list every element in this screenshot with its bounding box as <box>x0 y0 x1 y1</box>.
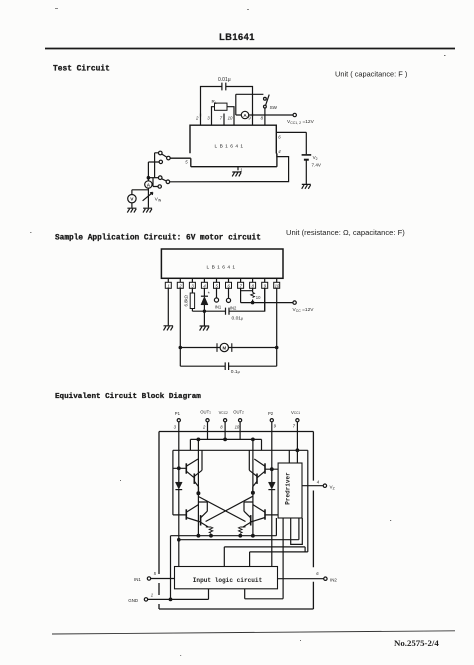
svg-text:7: 7 <box>220 116 223 121</box>
svg-text:3: 3 <box>207 116 210 121</box>
terminal IN2 pin 6 <box>324 577 327 580</box>
svg-text:OUT2: OUT2 <box>233 410 244 415</box>
resistor R5 <box>208 527 213 536</box>
emitter rail / ground rail <box>171 518 277 599</box>
svg-text:P1: P1 <box>175 411 181 416</box>
svg-text:Test Circuit: Test Circuit <box>53 65 110 74</box>
rail OUT top <box>190 439 261 450</box>
capacitor 0.01u top <box>201 87 253 117</box>
pin 10 wire down <box>276 288 278 366</box>
svg-text:No.2575-2/4: No.2575-2/4 <box>394 638 439 648</box>
input IN2 pin 6 <box>228 288 230 298</box>
node junction <box>147 177 149 179</box>
svg-text:4: 4 <box>203 283 206 288</box>
resistor 10 on pin 8 <box>252 288 254 302</box>
svg-text:Predriver: Predriver <box>285 472 292 505</box>
terminal GND pin 1 <box>144 598 147 601</box>
svg-text:7: 7 <box>240 283 243 288</box>
pin ticks top: 2 3 7 10 9 8 <box>201 114 265 126</box>
svg-text:1: 1 <box>167 283 169 288</box>
pin 9 wire <box>264 288 266 311</box>
wire node row with capacitor 0.01u <box>192 288 264 311</box>
footer rule <box>52 631 455 634</box>
battery V2 7.4V <box>305 132 307 184</box>
transistor Q6 <box>200 515 202 525</box>
svg-text:4: 4 <box>317 479 320 484</box>
svg-text:M: M <box>222 345 226 350</box>
svg-text:0.01μ: 0.01μ <box>232 315 244 321</box>
pin 7 wire and jumper to pin 8 <box>241 288 253 302</box>
input logic circuit box U4 <box>175 567 278 589</box>
svg-text:SW: SW <box>270 105 278 110</box>
terminal P1 <box>177 419 180 422</box>
svg-text:6.8kΩ: 6.8kΩ <box>184 294 189 306</box>
svg-text:Unit ( capacitance: F ): Unit ( capacitance: F ) <box>335 70 407 79</box>
svg-text:Sample Application Circuit: 6V: Sample Application Circuit: 6V motor cir… <box>55 235 261 243</box>
base feed column left <box>172 450 174 515</box>
terminal OUT1 <box>206 419 209 422</box>
svg-text:IN1: IN1 <box>215 305 222 310</box>
wire predriver U-link <box>291 518 303 544</box>
VIN variable arrow <box>143 192 153 200</box>
svg-text:OUT1: OUT1 <box>200 410 211 415</box>
terminal VCC1,2 <box>293 113 296 116</box>
rail VCC upper <box>173 449 308 451</box>
svg-text:VCC =12V: VCC =12V <box>293 307 315 313</box>
diode D3 <box>178 468 180 566</box>
pin 4 return loop wire <box>170 154 289 182</box>
ground battery <box>302 184 311 188</box>
transistor Q1 <box>185 463 187 473</box>
wire logic rail A <box>224 547 305 567</box>
svg-text:LB1641: LB1641 <box>219 32 255 42</box>
svg-text:1: 1 <box>151 592 153 597</box>
contact d <box>158 185 161 188</box>
svg-text:9: 9 <box>248 116 251 121</box>
wire predriver top riser <box>288 450 290 463</box>
svg-text:Input logic circuit: Input logic circuit <box>193 577 263 584</box>
ground below V <box>127 208 136 212</box>
svg-text:8: 8 <box>261 116 264 121</box>
svg-text:A: A <box>147 182 151 187</box>
terminal P2 <box>270 419 273 422</box>
wire predriver to logic step <box>245 518 283 599</box>
node OUT1 junction <box>197 492 200 495</box>
svg-text:5: 5 <box>154 571 157 576</box>
svg-text:IN1: IN1 <box>134 577 141 582</box>
svg-text:VCC2: VCC2 <box>219 410 228 415</box>
terminal Vz pin 4 <box>302 485 323 487</box>
contact b <box>159 160 162 163</box>
svg-text:10: 10 <box>235 425 240 430</box>
transistor Q7 <box>264 509 266 519</box>
wire logic rail B <box>250 552 308 567</box>
svg-text:8: 8 <box>252 283 255 288</box>
pin 1 wire to ground <box>167 288 169 325</box>
terminal OUT2 <box>239 419 242 422</box>
svg-text:V: V <box>130 197 134 203</box>
IC U1 LB1641 box <box>190 125 276 153</box>
svg-text:VZ: VZ <box>330 484 335 490</box>
motor M <box>220 343 228 351</box>
svg-text:2: 2 <box>202 425 206 430</box>
terminal VCC1 <box>296 419 299 422</box>
svg-text:2: 2 <box>178 283 182 288</box>
svg-text:Unit (resistance: Ω, capacitan: Unit (resistance: Ω, capacitance: F) <box>286 228 405 237</box>
rail second <box>179 518 299 540</box>
svg-text:6: 6 <box>278 135 281 140</box>
svg-text:LB1641: LB1641 <box>215 144 246 150</box>
switch SW <box>264 97 267 100</box>
node vertical right <box>252 439 254 535</box>
svg-text:3: 3 <box>174 425 177 430</box>
transistor Q5 <box>185 509 187 519</box>
svg-text:7: 7 <box>293 424 296 429</box>
svg-text:V2: V2 <box>313 155 318 161</box>
transistor Q2 <box>193 474 195 484</box>
pin 2 wire down to rails <box>179 288 181 366</box>
resistor R6 <box>239 527 244 536</box>
ammeter A <box>241 111 248 118</box>
diode D1 on pin 4 <box>203 288 205 326</box>
svg-text:*: * <box>208 291 210 297</box>
svg-text:0.01μ: 0.01μ <box>218 77 231 83</box>
pin boxes 1-10 <box>165 282 279 288</box>
svg-text:8: 8 <box>220 425 223 430</box>
svg-text:IN2: IN2 <box>230 305 237 310</box>
cross-coupling wires <box>198 496 253 521</box>
capacitor 0.1u bottom rail <box>180 365 276 367</box>
svg-text:LB1641: LB1641 <box>207 264 238 270</box>
outer boundary box <box>159 432 313 610</box>
terminal VCC2 <box>224 419 227 422</box>
transistor Q3 <box>264 463 266 473</box>
transistor Q8 <box>250 515 252 525</box>
motor M rail <box>180 347 276 349</box>
svg-text:3: 3 <box>191 283 194 288</box>
transistor Q4 <box>256 474 258 484</box>
resistor 6.8k on pin 3 <box>191 288 193 311</box>
header rule <box>45 48 455 50</box>
ground below VIN <box>143 208 152 212</box>
svg-text:2: 2 <box>195 116 199 121</box>
svg-text:GND: GND <box>128 598 138 603</box>
svg-text:VCC1: VCC1 <box>291 410 300 415</box>
predriver box U3 <box>278 463 302 518</box>
svg-text:VCC1, 2 =12V: VCC1, 2 =12V <box>287 119 315 125</box>
svg-text:0.1μ: 0.1μ <box>231 369 240 375</box>
node OUT2 junction <box>252 491 255 494</box>
pin 5 wire and bottom bracket with pin 1 <box>170 153 277 166</box>
VCC terminal <box>241 302 293 304</box>
wire to switch <box>236 94 264 115</box>
svg-text:9: 9 <box>264 283 267 288</box>
IC U2 LB1641 box <box>161 249 283 278</box>
switch S1a top <box>159 151 163 155</box>
svg-text:RL: RL <box>212 99 217 105</box>
svg-text:10: 10 <box>275 283 280 288</box>
svg-text:5: 5 <box>216 283 219 288</box>
svg-text:Equivalent Circuit Block Diagr: Equivalent Circuit Block Diagram <box>55 393 201 401</box>
switch S1b bottom <box>158 176 162 180</box>
node vertical left <box>197 439 199 535</box>
svg-text:IN2: IN2 <box>330 577 337 582</box>
diode D4 <box>271 469 273 566</box>
ammeter A2 left <box>145 181 152 188</box>
svg-text:10: 10 <box>256 295 261 300</box>
svg-text:VIN: VIN <box>155 196 162 202</box>
resistor RL <box>212 107 235 114</box>
svg-text:10: 10 <box>228 116 233 121</box>
svg-text:7.4V: 7.4V <box>312 163 322 168</box>
terminal IN1 pin 5 <box>147 577 150 580</box>
svg-text:9: 9 <box>274 424 277 429</box>
svg-text:P2: P2 <box>268 411 274 416</box>
svg-text:4: 4 <box>278 149 281 154</box>
wire rail2 to Vz riser <box>307 450 309 552</box>
input IN1 pin 5 <box>216 288 218 298</box>
svg-text:5: 5 <box>185 159 188 164</box>
svg-text:6: 6 <box>316 571 319 576</box>
pin 6 and pin 4 right side <box>276 131 306 133</box>
ground center <box>232 172 241 176</box>
voltmeter V <box>128 195 136 203</box>
svg-text:6: 6 <box>228 283 231 288</box>
svg-text:A: A <box>243 113 247 118</box>
